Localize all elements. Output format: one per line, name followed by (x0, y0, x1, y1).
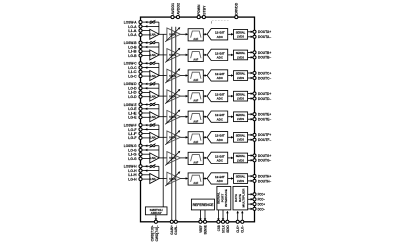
wire LNA-D to VGA-D (159, 95, 167, 97)
wire GAIN- bus (175, 27, 177, 222)
chip outline (141, 17, 255, 222)
svg-text:AAF: AAF (193, 99, 198, 103)
gain-control arrow VGA E (165, 110, 180, 124)
pin AVDD2 (175, 2, 180, 18)
pin LG-F (128, 135, 142, 140)
svg-text:LG-C: LG-C (128, 73, 136, 78)
svg-text:LNA: LNA (150, 136, 157, 140)
wire reference to SENSE pin (204, 210, 206, 221)
pin LI-E (128, 110, 142, 115)
wire LVDS-D to pin DOUTD+ (248, 93, 253, 95)
wire AAF-A to ADC-A (203, 33, 206, 35)
wire LVDS-H to pin DOUTH– (248, 180, 253, 182)
svg-text:AAF: AAF (193, 140, 198, 144)
svg-text:ADC: ADC (217, 97, 224, 101)
svg-text:CLK–: CLK– (240, 225, 245, 233)
pin LO-B (128, 44, 142, 49)
wire LOSW-F to switch (142, 124, 150, 126)
svg-text:LVDS: LVDS (237, 179, 244, 183)
wire LO-F (142, 128, 159, 130)
pin LI-F (128, 131, 142, 136)
wire VGA-E to AAF-E (180, 116, 187, 118)
pin LI-C (128, 69, 142, 74)
svg-text:LG-H: LG-H (128, 176, 136, 181)
svg-text:ADC: ADC (217, 179, 224, 183)
pin CSB (216, 220, 221, 231)
wire AAF-G to ADC-G (203, 157, 206, 159)
svg-text:LVDS: LVDS (237, 35, 244, 39)
svg-text:LG-G: LG-G (128, 156, 136, 161)
wire CWD bus from LNA outputs to switch array (162, 34, 164, 207)
pin LI-G (128, 152, 142, 157)
LNA B (150, 50, 159, 60)
svg-text:LG-D: LG-D (128, 94, 136, 99)
wire VGA-A to AAF-A (180, 33, 187, 35)
pin LOSW-E (124, 102, 142, 107)
svg-text:AVDD1: AVDD1 (170, 2, 175, 14)
LNA C (150, 71, 159, 81)
svg-text:DOUTB+: DOUTB+ (258, 51, 271, 55)
svg-text:ADC: ADC (217, 138, 224, 142)
pin GAIN&#8211; (173, 220, 178, 234)
pin DOUTB+ (253, 51, 271, 55)
pin DOUTH– (253, 179, 271, 183)
wire GAIN+ bus (171, 27, 173, 222)
pin LO-D (128, 86, 142, 91)
ADC H 12-bit (207, 173, 228, 184)
wire ADC-C to LVDS-C (228, 75, 233, 77)
pin DOUTA+ (253, 30, 271, 34)
svg-text:LNA: LNA (150, 177, 157, 181)
svg-text:LNA: LNA (150, 74, 157, 78)
wire LVDS-F to pin DOUTF+ (248, 134, 253, 136)
pin DOUTG– (253, 159, 271, 163)
wire ADC-H to LVDS-H (228, 178, 233, 180)
wire LO-E (142, 108, 159, 110)
wire switch array to CWD pins (155, 215, 157, 221)
wire LI-B (142, 50, 150, 52)
wire ADC-F to LVDS-F (228, 136, 233, 138)
svg-text:LNA: LNA (150, 53, 157, 57)
serial port interface box (217, 186, 231, 210)
wire LVDS-E to pin DOUTE+ (248, 113, 253, 115)
wire LOSW-H to switch (142, 165, 150, 167)
svg-text:LNA: LNA (150, 94, 157, 98)
pin DOUTG+ (253, 154, 271, 158)
wire LVDS-H to pin DOUTH+ (248, 175, 253, 177)
ADC B 12-bit (207, 49, 228, 60)
data rate multiplier box (233, 186, 248, 210)
wire LNA-E to VGA-E (159, 116, 167, 118)
svg-text:DRVDD: DRVDD (234, 3, 239, 15)
wire AAF-D to ADC-D (203, 95, 206, 97)
switch LOSW-G (150, 144, 159, 148)
wire LVDS-D to pin DOUTD– (248, 98, 253, 100)
wire VGA-C to AAF-C (180, 75, 187, 77)
svg-text:AAF: AAF (193, 58, 198, 62)
wire VGA-H to AAF-H (180, 178, 187, 180)
pin STBY (201, 5, 206, 18)
wire VGA-B to AAF-B (180, 54, 187, 56)
ADC F 12-bit (207, 132, 228, 143)
VGA C (167, 69, 181, 82)
svg-text:LNA: LNA (150, 33, 157, 37)
wire LOSW-B to switch (142, 42, 150, 44)
svg-text:LVDS: LVDS (237, 76, 244, 80)
svg-text:DOUTD–: DOUTD– (258, 97, 271, 101)
pin SENSE (202, 220, 207, 234)
pin CLK&#8211; (240, 220, 245, 233)
svg-text:DOUTF–: DOUTF– (258, 138, 271, 142)
wire LOSW-C to switch (142, 62, 150, 64)
LNA D (150, 91, 159, 101)
svg-text:LNA: LNA (150, 156, 157, 160)
VGA D (167, 90, 181, 103)
svg-text:AAF: AAF (193, 37, 198, 41)
wire LO-H (142, 170, 159, 172)
svg-text:DOUTC+: DOUTC+ (258, 71, 271, 75)
svg-text:LG-E: LG-E (128, 115, 137, 120)
svg-text:DOUTA–: DOUTA– (258, 35, 271, 39)
svg-text:LG-B: LG-B (128, 53, 136, 58)
wire LNA-G output node vertical (158, 146, 160, 158)
ADC C 12-bit (207, 70, 228, 81)
wire SPI to CSB pin (217, 210, 219, 221)
pin LOSW-B (124, 40, 142, 45)
wire LOSW-G to switch (142, 145, 150, 147)
svg-text:ADC: ADC (217, 159, 224, 163)
wire VGA-D to AAF-D (180, 95, 187, 97)
ADC G 12-bit (207, 152, 228, 163)
pin LOSW-A (124, 19, 142, 24)
pin PDWN (196, 5, 201, 19)
pin DOUTF– (253, 138, 271, 142)
pin LO-A (128, 24, 142, 29)
svg-text:CWD[7:0]–: CWD[7:0]– (155, 225, 159, 241)
wire AAF-C to ADC-C (203, 75, 206, 77)
svg-text:AVDD2: AVDD2 (175, 2, 180, 14)
wire SDIO pin to SPI (bidirectional) (226, 211, 228, 221)
serial LVDS A (234, 30, 248, 40)
wire data rate multiplier to pin FCO- (248, 198, 253, 200)
wire AAF-F to ADC-F (203, 136, 206, 138)
wire LNA-F output node vertical (158, 125, 160, 137)
wire data rate multiplier to pin DCO+ (248, 203, 253, 205)
svg-text:DOUTB–: DOUTB– (258, 56, 271, 60)
svg-text:FCO+: FCO+ (258, 193, 265, 197)
pin DCO- (253, 207, 265, 211)
wire ADC-E to LVDS-E (228, 116, 233, 118)
wire SPI to SCLK pin (222, 210, 224, 221)
LNA A (150, 29, 159, 39)
switch LOSW-C (150, 61, 159, 65)
pin LOSW-C (124, 61, 142, 66)
svg-text:ARRAY: ARRAY (151, 211, 162, 215)
gain-control arrow VGA D (165, 89, 180, 103)
pin FCO+ (253, 193, 265, 197)
wire LG-A (142, 34, 150, 36)
wire LI-G (142, 153, 150, 155)
VGA E (167, 110, 181, 123)
wire LNA-H to VGA-H (159, 178, 167, 180)
wire ADC-B to LVDS-B (228, 54, 233, 56)
svg-text:LG-F: LG-F (128, 135, 137, 140)
wire LNA-C output node vertical (158, 63, 160, 75)
svg-text:DCO–: DCO– (258, 207, 265, 211)
VGA G (167, 152, 181, 165)
svg-text:DCO+: DCO+ (258, 202, 265, 206)
pin LI-D (128, 90, 142, 95)
pin CWD[7:0]+/- (151, 220, 159, 241)
wire LNA-F to VGA-F (159, 136, 167, 138)
svg-text:ADC: ADC (217, 35, 224, 39)
wire LG-B (142, 55, 150, 57)
svg-text:DOUTC–: DOUTC– (258, 76, 271, 80)
pin LI-A (128, 28, 142, 33)
VGA F (167, 131, 181, 144)
wire LG-C (142, 75, 150, 77)
svg-text:AAF: AAF (193, 181, 198, 185)
wire data rate multiplier to pin FCO+ (248, 193, 253, 195)
wire ADC-D to LVDS-D (228, 95, 233, 97)
wire LNA-B output node vertical (158, 43, 160, 55)
pin LOSW-G (124, 143, 142, 148)
svg-text:INTERFACE: INTERFACE (224, 189, 228, 207)
VGA A (167, 28, 181, 41)
serial LVDS C (234, 71, 248, 81)
wire LOSW-A to switch (142, 21, 150, 23)
gain-control arrow VGA F (165, 131, 180, 145)
pin GAIN+ (169, 220, 174, 234)
svg-text:MULTIPLIER: MULTIPLIER (242, 188, 246, 208)
ADC D 12-bit (207, 90, 228, 101)
pin CLK+ (235, 220, 240, 233)
svg-text:LVDS: LVDS (237, 158, 244, 162)
wire LG-E (142, 116, 150, 118)
svg-text:AAF: AAF (193, 78, 198, 82)
serial LVDS D (234, 91, 248, 101)
wire LNA-A to VGA-A (159, 33, 167, 35)
AAF A (188, 29, 203, 41)
pin SCLK (220, 220, 225, 233)
wire LVDS-A to pin DOUTA+ (248, 31, 253, 33)
wire CLK- pin to data rate multiplier (241, 211, 243, 221)
wire AAF-B to ADC-B (203, 54, 206, 56)
svg-text:SENSE: SENSE (202, 225, 207, 235)
svg-text:LVDS: LVDS (237, 97, 244, 101)
wire VGA-G to AAF-G (180, 157, 187, 159)
pin DCO+ (253, 202, 265, 206)
AAF E (188, 111, 203, 123)
pin LG-H (128, 176, 142, 181)
wire LOSW-D to switch (142, 83, 150, 85)
switch LOSW-F (150, 123, 159, 127)
pin LOSW-F (124, 123, 142, 128)
AAF G (188, 152, 203, 164)
wire LVDS-G to pin DOUTG+ (248, 155, 253, 157)
wire ADC-A to LVDS-A (228, 33, 233, 35)
pin LO-H (128, 168, 142, 173)
pin DOUTD+ (253, 92, 271, 96)
pin LOSW-D (124, 81, 142, 86)
wire LO-A (142, 25, 159, 27)
pin LG-D (128, 94, 142, 99)
svg-text:LVDS: LVDS (237, 138, 244, 142)
switch LOSW-E (150, 102, 159, 106)
AAF B (188, 49, 203, 61)
wire LVDS-G to pin DOUTG– (248, 159, 253, 161)
svg-text:DOUTF+: DOUTF+ (258, 133, 271, 137)
wire LO-B (142, 46, 159, 48)
wire LVDS-C to pin DOUTC– (248, 77, 253, 79)
wire LG-G (142, 158, 150, 160)
pin AVDD1 (170, 2, 175, 18)
wire LVDS-B to pin DOUTB– (248, 56, 253, 58)
switch LOSW-H (150, 164, 159, 168)
svg-text:DOUTE–: DOUTE– (258, 118, 271, 122)
pin LG-E (128, 115, 142, 120)
wire LO-G (142, 149, 159, 151)
pin DOUTD– (253, 97, 271, 101)
pin DOUTE– (253, 118, 271, 122)
wire LNA-D output node vertical (158, 84, 160, 96)
pin DOUTB– (253, 56, 271, 60)
switch LOSW-D (150, 82, 159, 86)
svg-text:ADC: ADC (217, 76, 224, 80)
pin LG-B (128, 53, 142, 58)
wire LNA-B to VGA-B (159, 54, 167, 56)
pin LI-B (128, 49, 142, 54)
wire LOSW-E to switch (142, 104, 150, 106)
pin LO-E (128, 106, 142, 111)
pin DOUTE+ (253, 113, 271, 117)
wire LI-E (142, 112, 150, 114)
svg-text:LVDS: LVDS (237, 117, 244, 121)
wire data rate multiplier to pin DCO- (248, 208, 253, 210)
svg-text:SDIO: SDIO (225, 225, 230, 233)
wire LNA-G to VGA-G (159, 157, 167, 159)
pin DOUTF+ (253, 133, 271, 137)
wire LVDS-A to pin DOUTA– (248, 36, 253, 38)
pin LG-C (128, 73, 142, 78)
VGA H (167, 172, 181, 185)
wire LNA-A output node vertical (158, 22, 160, 34)
pin SDIO (225, 220, 230, 233)
svg-text:ADC: ADC (217, 56, 224, 60)
wire AAF-E to ADC-E (203, 116, 206, 118)
VGA B (167, 49, 181, 62)
switch array box (145, 207, 167, 215)
wire LVDS-C to pin DOUTC+ (248, 72, 253, 74)
reference box (191, 199, 214, 210)
wire LO-D (142, 87, 159, 89)
ADC A 12-bit (207, 29, 228, 40)
LNA E (150, 112, 159, 122)
svg-text:DOUTH–: DOUTH– (258, 179, 271, 183)
pin DOUTA– (253, 35, 271, 39)
svg-text:DOUTA+: DOUTA+ (258, 30, 271, 34)
wire LNA-E output node vertical (158, 105, 160, 117)
LNA H (150, 174, 159, 184)
svg-text:DOUTE+: DOUTE+ (258, 113, 271, 117)
svg-text:FCO–: FCO– (258, 198, 265, 202)
serial LVDS E (234, 112, 248, 122)
serial LVDS G (234, 153, 248, 163)
gain-control arrow VGA H (165, 172, 180, 186)
wire LO-C (142, 67, 159, 69)
ADC E 12-bit (207, 111, 228, 122)
wire LI-H (142, 174, 150, 176)
wire AAF-H to ADC-H (203, 178, 206, 180)
pin LO-G (128, 147, 142, 152)
wire LVDS-E to pin DOUTE– (248, 118, 253, 120)
pin DOUTH+ (253, 174, 271, 178)
wire reference to VREF pin (199, 210, 201, 221)
AAF H (188, 173, 203, 185)
svg-text:REFERENCE: REFERENCE (193, 203, 214, 207)
wire LI-C (142, 71, 150, 73)
LNA G (150, 153, 159, 163)
switch LOSW-B (150, 41, 159, 45)
svg-text:GAIN–: GAIN– (173, 225, 178, 235)
wire LG-F (142, 137, 150, 139)
serial LVDS B (234, 50, 248, 60)
AAF D (188, 91, 203, 103)
gain-control arrow VGA A (165, 28, 180, 42)
svg-text:DOUTD+: DOUTD+ (258, 92, 271, 96)
wire CLK+ pin to data rate multiplier (237, 211, 239, 221)
faint dashed annotation line (211, 20, 229, 23)
svg-text:AAF: AAF (193, 119, 198, 123)
svg-text:DOUTG–: DOUTG– (258, 159, 271, 163)
svg-text:LG-A: LG-A (128, 32, 136, 37)
wire LVDS-F to pin DOUTF– (248, 139, 253, 141)
pin DRVDD (234, 3, 239, 19)
wire ADC-G to LVDS-G (228, 157, 233, 159)
serial LVDS F (234, 133, 248, 143)
svg-text:AAF: AAF (193, 161, 198, 165)
wire LG-H (142, 178, 150, 180)
wire VGA-F to AAF-F (180, 136, 187, 138)
pin LG-G (128, 156, 142, 161)
pin LO-C (128, 65, 142, 70)
LNA F (150, 132, 159, 142)
svg-text:LNA: LNA (150, 115, 157, 119)
AAF C (188, 70, 203, 82)
wire LNA-C to VGA-C (159, 75, 167, 77)
serial LVDS H (234, 174, 248, 184)
svg-text:DOUTG+: DOUTG+ (258, 154, 271, 158)
wire LI-A (142, 30, 150, 32)
svg-text:DOUTH+: DOUTH+ (258, 174, 271, 178)
gain-control arrow VGA B (165, 48, 180, 62)
pin FCO- (253, 198, 265, 202)
wire LG-D (142, 96, 150, 98)
svg-text:ADC: ADC (217, 117, 224, 121)
switch LOSW-A (150, 20, 159, 24)
wire LI-F (142, 133, 150, 135)
pin LO-F (128, 127, 142, 132)
pin DOUTC+ (253, 71, 271, 75)
pin DOUTC– (253, 76, 271, 80)
svg-text:LVDS: LVDS (237, 55, 244, 59)
wire LNA-H output node vertical (158, 166, 160, 178)
gain-control arrow VGA C (165, 69, 180, 83)
AAF F (188, 132, 203, 144)
pin LG-A (128, 32, 142, 37)
gain-control arrow VGA G (165, 151, 180, 165)
wire LI-D (142, 91, 150, 93)
